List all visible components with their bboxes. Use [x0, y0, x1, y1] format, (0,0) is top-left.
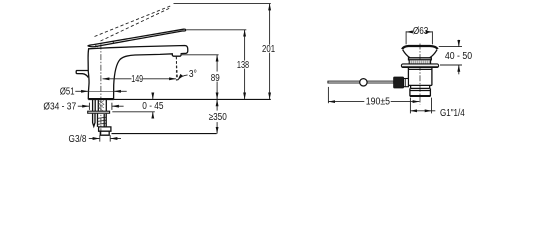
svg-text:≥350: ≥350 — [209, 112, 228, 123]
hose end line — [112, 133, 217, 135]
dimension 0 - 45 — [112, 111, 155, 113]
drain body — [408, 68, 432, 86]
lever seam tick — [112, 41, 115, 44]
supply hose tail — [98, 114, 107, 127]
shank thread zigzag — [99, 101, 104, 112]
mounting stud with pointed tip — [93, 114, 95, 127]
svg-text:G1"1/4: G1"1/4 — [440, 108, 465, 119]
counter top line — [114, 98, 271, 100]
dimension G1"1/4 — [409, 98, 411, 114]
dimension 201 — [269, 4, 271, 45]
svg-text:89: 89 — [211, 73, 220, 84]
plug collar — [409, 58, 432, 60]
drain tailpiece — [410, 88, 431, 96]
rod ball — [360, 79, 367, 86]
svg-text:Ø34 - 37: Ø34 - 37 — [43, 102, 76, 113]
dimension 89 — [216, 55, 218, 72]
svg-text:201: 201 — [262, 44, 275, 55]
mounting washer — [88, 111, 110, 113]
extension line raised lever level — [174, 3, 271, 5]
svg-text:G3/8: G3/8 — [69, 134, 87, 145]
aerator tilted dashed axis 3deg — [176, 57, 177, 81]
handle raised position dashed B — [101, 7, 172, 41]
pop-up rod — [328, 81, 394, 83]
handle lever — [88, 29, 186, 47]
faucet base bottom edge — [88, 98, 113, 100]
handle raised position dashed A — [95, 6, 171, 37]
plug head dome — [402, 46, 438, 49]
drain body band — [411, 85, 430, 88]
dimension G3/8 — [89, 138, 100, 140]
svg-text:0 - 45: 0 - 45 — [142, 101, 164, 112]
dimension 190+-5 — [327, 87, 329, 103]
dimension 40 - 50 — [439, 46, 462, 48]
extension line lever tip level — [186, 29, 246, 31]
extension line aerator level — [182, 54, 219, 56]
svg-text:Ø63: Ø63 — [413, 26, 429, 37]
dimension >=350 — [216, 100, 218, 111]
svg-text:Ø51: Ø51 — [60, 86, 75, 97]
dimension 138 — [244, 30, 246, 61]
knurled ring section — [409, 60, 430, 64]
svg-text:149: 149 — [131, 74, 143, 85]
under-counter shank lines — [92, 99, 94, 111]
faucet centerline — [100, 44, 102, 136]
dimension 149 — [103, 78, 132, 80]
aerator dashed axis — [175, 57, 177, 81]
faucet body and spout outline — [88, 46, 188, 99]
drain centerline — [419, 44, 421, 105]
pop-up lever block — [394, 77, 404, 88]
svg-text:190±5: 190±5 — [366, 96, 391, 107]
svg-text:40 - 50: 40 - 50 — [445, 51, 473, 62]
left tab on body — [76, 71, 88, 78]
nose seam — [95, 45, 97, 47]
drain flange — [401, 64, 438, 68]
dimension Ø63 — [405, 31, 407, 44]
plug trumpet sides — [403, 50, 437, 58]
lever connector — [404, 79, 409, 87]
svg-text:3°: 3° — [189, 69, 197, 80]
G3/8 nut — [99, 127, 111, 135]
3 degree leader arc — [178, 75, 188, 80]
dimension Ø34 - 37 — [78, 105, 89, 107]
svg-text:138: 138 — [237, 60, 250, 71]
dimension Ø51 — [75, 90, 88, 92]
